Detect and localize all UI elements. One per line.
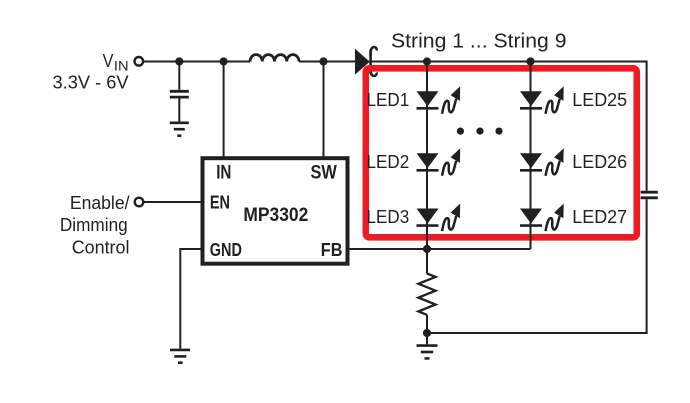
op IC U1 MP3302 body (203, 158, 348, 264)
wire: bottom rail to resistor junction (427, 332, 648, 334)
diode D1 (schottky rectifier) (355, 49, 370, 75)
wire: IN pin drop (223, 62, 225, 158)
svg-text:LED3: LED3 (367, 206, 410, 227)
wire: GND pin to ground (180, 249, 202, 349)
wire: inductor through diode to top right corner (299, 61, 647, 63)
svg-text:LED25: LED25 (572, 89, 627, 110)
node ellipsis dots between strings (457, 128, 464, 135)
node: FB junction (423, 245, 431, 253)
LED LED27 (520, 204, 564, 232)
svg-text:3.3V - 6V: 3.3V - 6V (53, 72, 130, 93)
svg-text:LED1: LED1 (367, 89, 410, 110)
LED LED25 (520, 86, 564, 114)
resistor R1 (FB) (418, 249, 435, 333)
wire: FB pin to bottom rail (348, 248, 531, 250)
svg-text:MP3302: MP3302 (243, 204, 308, 226)
wire: LED string 1 vertical (426, 62, 428, 250)
red highlight box around LED strings (366, 68, 637, 237)
svg-text:SW: SW (311, 163, 337, 184)
wire: input cap drop (178, 62, 180, 90)
svg-text:V: V (103, 50, 114, 71)
svg-text:LED26: LED26 (572, 151, 627, 172)
ground (input cap) (170, 123, 189, 136)
wire: EN to IC (143, 201, 202, 203)
LED LED1 (417, 86, 461, 114)
svg-text:String 1 ... String 9: String 1 ... String 9 (391, 30, 567, 52)
capacitor C2 (output) (641, 192, 658, 198)
wire: SW pin drop (323, 62, 325, 158)
LED LED2 (417, 148, 461, 176)
svg-text:LED2: LED2 (367, 151, 410, 172)
wire: right side vertical down to output cap (646, 61, 648, 191)
wire: junction to ground (426, 333, 428, 344)
capacitor C1 (input) (170, 91, 189, 97)
svg-text:FB: FB (321, 239, 343, 260)
LED LED3 (417, 204, 461, 232)
wire: input cap to ground (178, 98, 180, 121)
wire: output cap down to bottom rail (646, 199, 648, 334)
node: string 1 top (423, 57, 431, 65)
node: SW junction (319, 57, 327, 65)
node: IN junction (220, 57, 228, 65)
svg-text:EN: EN (210, 192, 230, 213)
svg-text:Control: Control (72, 236, 130, 257)
wire: VIN terminal to inductor (143, 61, 250, 63)
diode D1 cathode bar (schottky) (371, 47, 377, 76)
svg-text:Dimming: Dimming (60, 214, 128, 235)
inductor L1 (250, 55, 299, 62)
node: resistor bottom junction (423, 329, 431, 337)
terminal VIN (135, 57, 144, 66)
svg-text:Enable/: Enable/ (70, 192, 130, 213)
svg-text:LED27: LED27 (572, 206, 627, 227)
terminal EN (135, 198, 144, 207)
node: input cap junction (175, 57, 183, 65)
wire: LED string 9 vertical (530, 62, 532, 250)
node: string 9 top (526, 57, 534, 65)
ground (IC GND) (170, 350, 190, 363)
svg-text:GND: GND (210, 239, 242, 260)
svg-text:IN: IN (216, 163, 231, 184)
ground (FB resistor) (417, 346, 438, 359)
LED LED26 (520, 148, 564, 176)
